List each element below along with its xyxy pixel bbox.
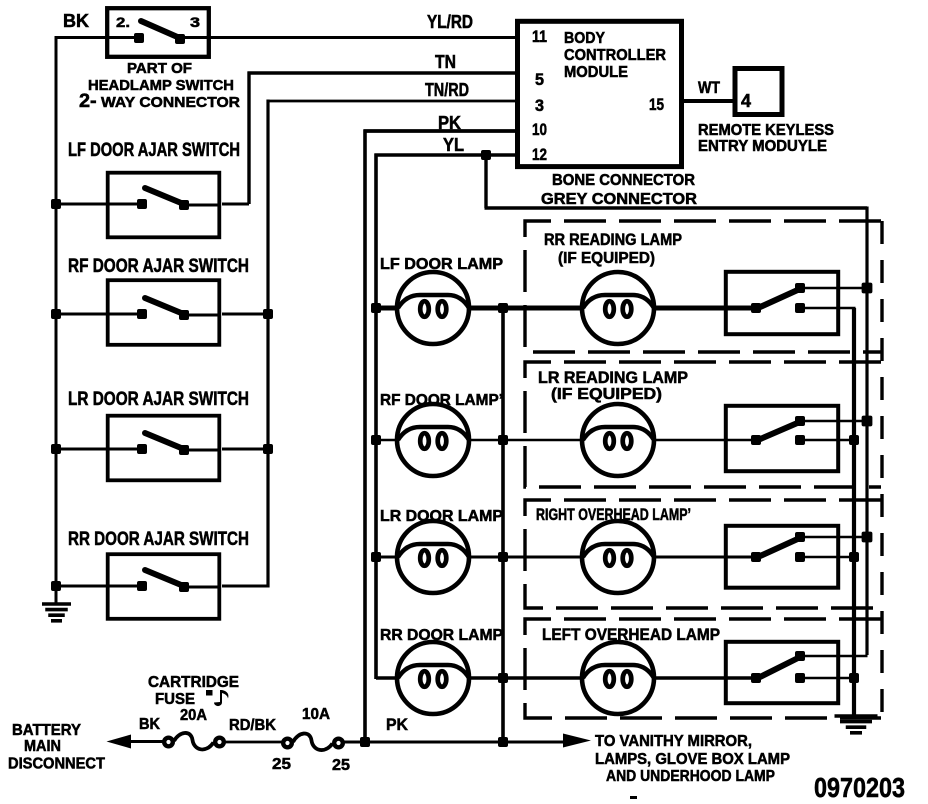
junction mid bus row 3 [498, 552, 508, 562]
svg-text:25: 25 [272, 756, 291, 773]
junction on BK bus at RR row [51, 581, 61, 591]
lamp right overhead lamp [582, 521, 654, 593]
caption battery main disconnect [8, 722, 105, 773]
svg-text:CARTRIDGE: CARTRIDGE [148, 674, 239, 691]
junction YL wire / grey connector branch [481, 150, 491, 160]
junction feed bus row 1 [862, 283, 873, 294]
svg-text:RF DOOR AJAR SWITCH: RF DOOR AJAR SWITCH [68, 256, 249, 277]
wire switch lower contact row 4 [800, 677, 856, 680]
wire lamp row 1 [376, 306, 758, 311]
arrow to battery main disconnect [107, 735, 132, 749]
wire fuse link [225, 741, 282, 744]
junction YL bus row 3 [371, 552, 381, 562]
svg-text:RIGHT OVERHEAD LAMPʼ: RIGHT OVERHEAD LAMPʼ [536, 506, 691, 524]
junction PK vertical at fuse row [360, 737, 370, 747]
junction mid bus row 4 [498, 673, 508, 683]
svg-text:(IF EQUIPED): (IF EQUIPED) [551, 386, 662, 403]
body controller module box [518, 21, 682, 166]
caption to vanity mirror lamps [595, 733, 790, 785]
dashed box right edge [880, 221, 883, 718]
svg-text:5: 5 [535, 70, 544, 89]
caption part of headlamp switch 2-way connector [79, 60, 240, 112]
svg-text:AND UNDERHOOD LAMP: AND UNDERHOOD LAMP [606, 768, 775, 785]
svg-text:GREY CONNECTOR: GREY CONNECTOR [541, 191, 697, 208]
svg-text:PK: PK [438, 113, 461, 133]
svg-text:0970203: 0970203 [814, 772, 905, 803]
caption LR READING LAMP [538, 369, 688, 403]
lamp LF door lamp [397, 272, 469, 344]
junction ground bus row 4 [849, 673, 859, 683]
dashed box right overhead lamp housing [525, 500, 881, 608]
junction TN/RD at RF row [263, 309, 273, 319]
switch headlamp (part of headlamp switch) [107, 8, 209, 57]
wire BK from headlamp switch pin 2 [56, 36, 139, 39]
svg-text:YL/RD: YL/RD [427, 12, 473, 32]
svg-text:DISCONNECT: DISCONNECT [8, 756, 105, 773]
svg-text:WT: WT [698, 78, 721, 97]
svg-text:LR DOOR AJAR SWITCH: LR DOOR AJAR SWITCH [68, 389, 249, 410]
switch RF door ajar [106, 280, 221, 345]
wire LR door ajar switch to module feed [222, 448, 268, 451]
svg-text:CONTROLLER: CONTROLLER [564, 47, 666, 64]
arrow to vanity mirror circuits [563, 734, 591, 748]
svg-text:YL: YL [443, 135, 464, 155]
dashed box RR reading lamp housing [525, 221, 881, 352]
wire switch upper contact row 1 [800, 287, 868, 290]
wire YL/RD headlamp switch pin 3 to BCM pin 11 [180, 36, 516, 39]
lamp left overhead lamp [582, 642, 654, 714]
switch right overhead lamp switch [726, 526, 838, 588]
wire WT (BCM pin 15 to remote keyless entry module) [681, 99, 735, 103]
svg-text:LR READING LAMP: LR READING LAMP [538, 369, 688, 387]
svg-text:BK: BK [139, 716, 160, 733]
wire switch ground bus (right vertical) [852, 308, 856, 716]
ground right (lamp switches) [835, 716, 878, 733]
switch RR door ajar [106, 554, 221, 619]
switch LF door ajar [106, 173, 221, 238]
wire switch upper contact row 2 [800, 420, 868, 423]
wire battery feed [128, 740, 164, 743]
wire switch lower contact row 3 [800, 556, 856, 559]
svg-text:RD/BK: RD/BK [229, 717, 276, 734]
wire switch lower contact row 2 [800, 439, 856, 442]
wire TN/RD (BCM pin 3 to RF/LR/RR door ajar switches) [267, 100, 517, 588]
svg-text:LAMPS, GLOVE BOX LAMP: LAMPS, GLOVE BOX LAMP [595, 751, 790, 768]
wire lamp row 2 [376, 439, 758, 442]
wire PK (BCM pin 10 down to fuse feed) [364, 130, 517, 744]
wire BK vertical bus to door ajar switches [55, 36, 58, 604]
junction ground bus row 2 [849, 435, 859, 445]
lamp LR door lamp [397, 521, 469, 593]
wire switch upper contact row 4 [800, 655, 868, 658]
svg-text:20A: 20A [180, 707, 207, 724]
svg-text:2- WAY CONNECTOR: 2- WAY CONNECTOR [79, 91, 240, 112]
fuse 10A [283, 734, 343, 751]
wire lamp row 4 [376, 676, 758, 680]
junction on BK bus at LF row [51, 199, 61, 209]
svg-text:(IF EQUIPED): (IF EQUIPED) [558, 250, 655, 267]
svg-text:PK: PK [386, 715, 409, 734]
junction feed bus row 2 [862, 416, 873, 427]
wire lamp row 3 [376, 556, 758, 559]
svg-text:RR READING LAMP: RR READING LAMP [544, 231, 682, 249]
remote keyless entry module box [735, 69, 782, 115]
svg-text:TN: TN [435, 52, 456, 72]
wire switch lower contact row 1 [800, 307, 856, 310]
svg-text:MODULE: MODULE [564, 64, 628, 81]
svg-text:12: 12 [532, 145, 547, 164]
junction on BK bus at LR row [51, 444, 61, 454]
wire BK bus to LF door ajar switch [56, 203, 109, 206]
svg-text:PART OF: PART OF [127, 60, 192, 77]
junction mid bus row 2 [498, 435, 508, 445]
svg-text:ENTRY MODUYLE: ENTRY MODUYLE [698, 138, 827, 155]
speck [630, 796, 637, 799]
svg-text:RR DOOR AJAR SWITCH: RR DOOR AJAR SWITCH [68, 529, 249, 550]
lamp LR reading lamp [582, 404, 654, 476]
wire TN (BCM pin 5 to LF door ajar switch) [248, 72, 517, 205]
svg-text:FUSE: FUSE [155, 691, 195, 708]
svg-text:LF DOOR LAMP: LF DOOR LAMP [380, 256, 503, 273]
svg-text:LF DOOR AJAR SWITCH: LF DOOR AJAR SWITCH [68, 140, 240, 161]
caption bone/grey connector [541, 172, 697, 208]
caption cartridge fuse [148, 674, 239, 708]
junction YL bus row 2 [371, 435, 381, 445]
wire lamp return bus (mid vertical) [501, 308, 505, 742]
svg-text:REMOTE KEYLESS: REMOTE KEYLESS [698, 122, 834, 139]
BCM title [564, 30, 666, 81]
junction mid bus row 1 [498, 303, 508, 313]
svg-text:HEADLAMP SWITCH: HEADLAMP SWITCH [88, 77, 234, 94]
svg-text:LEFT OVERHEAD LAMP: LEFT OVERHEAD LAMP [542, 626, 720, 644]
junction on BK bus at RF row [51, 309, 61, 319]
fuse cartridge 20A [164, 733, 224, 749]
svg-text:MAIN: MAIN [24, 738, 61, 755]
wire YL (BCM pin 12 down to door lamp bus) [375, 154, 517, 680]
svg-text:10A: 10A [302, 706, 330, 723]
caption RR READING LAMP [544, 231, 682, 267]
junction ground bus row 3 [849, 552, 859, 562]
lamp RR door lamp [397, 642, 469, 714]
junction feed bus row 3 [862, 532, 873, 543]
svg-text:BK: BK [63, 11, 89, 31]
wire BK bus to LR door ajar switch [56, 448, 109, 451]
wire grey connector feed to lamp switch bus [485, 155, 868, 655]
junction TN/RD at LR row [263, 444, 273, 454]
wire BK bus to RF door ajar switch [56, 313, 109, 316]
switch LR reading lamp switch [726, 406, 838, 471]
lamp RF door lamp [397, 404, 469, 476]
svg-text:3: 3 [190, 14, 200, 30]
svg-text:4: 4 [741, 91, 751, 111]
dashed box left overhead lamp housing [525, 619, 881, 718]
switch LR door ajar [106, 416, 221, 481]
svg-text:BODY: BODY [564, 30, 605, 47]
svg-text:11: 11 [532, 27, 547, 46]
svg-text:15: 15 [649, 95, 664, 114]
svg-text:TN/RD: TN/RD [425, 80, 469, 100]
wire LF door ajar switch to module feed [222, 203, 249, 206]
lamp RR reading lamp [582, 272, 654, 344]
svg-text:BONE CONNECTOR: BONE CONNECTOR [552, 172, 695, 189]
svg-text:25: 25 [332, 757, 350, 774]
svg-text:TO VANITHY MIRROR,: TO VANITHY MIRROR, [595, 733, 752, 750]
ground left (door ajar switches) [42, 604, 71, 621]
junction lamp return bus at bottom feed [498, 737, 508, 747]
wire PK feed along bottom [344, 741, 565, 744]
dashed box LR reading lamp housing [525, 362, 881, 487]
wire RR door ajar switch to module feed [222, 585, 268, 588]
caption remote keyless entry module [698, 122, 834, 155]
junction YL bus row 1 [371, 303, 381, 313]
switch RR reading lamp switch [726, 272, 838, 334]
wire BK bus to RR door ajar switch [56, 585, 109, 588]
svg-text:3: 3 [535, 96, 544, 115]
wire switch upper contact row 3 [800, 536, 868, 539]
svg-text:10: 10 [532, 120, 547, 139]
svg-text:BATTERY: BATTERY [12, 722, 81, 739]
svg-text:2.: 2. [116, 14, 130, 30]
switch left overhead lamp switch [726, 642, 838, 703]
wire RF door ajar switch to module feed [222, 313, 268, 316]
